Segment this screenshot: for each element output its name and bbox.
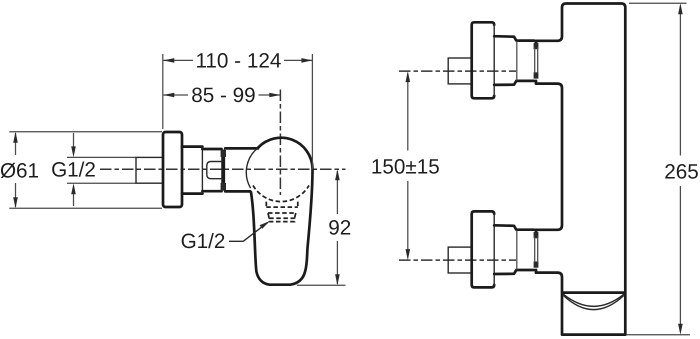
bottom inlet: cone (494, 225, 534, 274)
hidden outlet: bottom box (269, 218, 294, 221)
flange (163, 132, 182, 207)
extension line bottom of flange (Ø61) (9, 207, 162, 209)
top inlet: joint lines (535, 48, 538, 74)
thin arc at body/connector joint (246, 148, 257, 188)
top inlet: pipe stub (448, 58, 472, 84)
svg-text:Ø61: Ø61 (0, 160, 39, 183)
svg-text:85 - 99: 85 - 99 (191, 84, 255, 107)
svg-text:92: 92 (328, 217, 351, 240)
dimension 265 extension lines (629, 2, 687, 4)
dimension G1/2 arrows (73, 133, 75, 148)
leader G1/2 outlet (229, 223, 268, 242)
connector piece to body (225, 148, 258, 191)
bottom inlet: pipe stub (448, 247, 472, 273)
dimension 85-99 (163, 94, 188, 96)
bottom inlet: joint lines (535, 237, 538, 263)
top inlet: centerline (399, 70, 516, 72)
valve body with inlet bosses (536, 4, 625, 335)
dimension Ø61 line (15, 133, 17, 155)
nut face (221, 150, 225, 191)
top inlet: cone (494, 36, 534, 85)
top inlet: flange (472, 22, 495, 98)
svg-text:110 - 124: 110 - 124 (195, 50, 281, 73)
vertical centerline of body (279, 90, 281, 196)
extension line top of flange (Ø61) (9, 131, 162, 133)
dimension 150±15 (407, 74, 409, 151)
hidden cartridge dome arc (253, 185, 309, 201)
svg-text:G1/2: G1/2 (181, 230, 226, 253)
svg-text:G1/2: G1/2 (51, 159, 96, 182)
hidden outlet: middle line and slants (268, 213, 296, 218)
sleeve section 2 (202, 149, 221, 191)
thread end inside nut (207, 162, 223, 179)
top inlet: nut corners (534, 43, 539, 49)
pipe stub (136, 157, 163, 183)
spout arcs (563, 294, 624, 309)
hidden outlet: upper ticks and line (266, 202, 298, 208)
dimension 92 (297, 284, 346, 286)
boss face stubs (535, 41, 538, 273)
dimension 110-124 extension lines (162, 54, 164, 129)
body and handle outline (251, 138, 313, 285)
spout cover line (563, 291, 625, 294)
bottom inlet: flange (472, 211, 495, 287)
dimension 265 (679, 6, 681, 156)
cone sleeve (182, 147, 202, 194)
horizontal centerline (100, 168, 346, 170)
extension line top of pipe (G1/2) (67, 156, 136, 158)
bottom inlet: centerline (399, 259, 516, 261)
svg-text:150±15: 150±15 (371, 156, 440, 179)
dimension 110-124 (163, 59, 193, 61)
svg-text:265: 265 (664, 161, 699, 184)
extension line bottom of pipe (G1/2) (67, 182, 136, 184)
bottom inlet: nut corners (534, 232, 539, 238)
